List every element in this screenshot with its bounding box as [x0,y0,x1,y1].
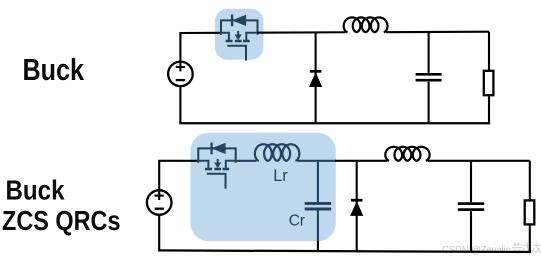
wire: output capacitor branch (top) [428,32,430,123]
inductor L (bottom circuit) [385,147,429,161]
wire: resonant capacitor branch [317,161,319,242]
wire: top circuit bottom rail [179,122,490,124]
load resistor R (bottom circuit) [525,200,535,224]
svg-text:Cr: Cr [289,213,305,230]
wire: Vin to switch [179,32,221,34]
watermark: CJK glyph 1 [512,243,522,253]
watermark: CJK glyph 2 [523,243,532,253]
svg-text:Buck: Buck [23,52,85,87]
wire: Cr branch below highlight box [317,241,319,251]
wire: top circuit left rail [179,33,181,123]
highlight box: ZCS resonant cell [190,133,335,241]
output capacitor C (bottom circuit) [458,204,484,210]
wire: inductor to output node (bottom) [428,160,530,162]
svg-text:Buck: Buck [6,174,65,205]
wire: output capacitor branch (bottom) [470,161,472,252]
svg-text:Lr: Lr [273,167,288,185]
wire: Lr to Cr tap [298,160,337,162]
voltage source Vin (bottom circuit) [147,190,172,215]
svg-text:CSDN @Zevalin: CSDN @Zevalin [442,244,511,256]
MOSFET switch with body diode (top circuit) [221,16,258,60]
MOSFET switch with body diode (bottom circuit) [198,144,235,188]
wire: Cr tap to diode tap and inductor [335,160,387,162]
svg-text:ZCS QRCs: ZCS QRCs [2,205,121,236]
watermark: CJK glyph 3 [532,243,541,253]
freewheeling diode D1 (bottom circuit) [351,200,363,215]
wire: bottom circuit left rail [158,161,160,251]
resonant inductor Lr [255,144,299,161]
freewheeling diode D1 (top circuit) [310,71,322,86]
highlight box: Buck switch cell [215,9,264,60]
wire: freewheel diode branch (bottom) [356,161,358,251]
wire: load branch (bottom) [529,161,531,252]
wire: load branch (top) [488,32,490,124]
wire: inductor to output node (top) [386,31,489,34]
output capacitor C (top circuit) [416,74,442,80]
wire: freewheel diode branch (top) [315,33,317,124]
wire: Vin to switch (bottom) [158,160,198,162]
wire: bottom circuit bottom rail [158,250,531,252]
inductor L (top circuit) [344,17,388,32]
wire: switch to inductor, diode tap [258,31,346,34]
voltage source Vin (top circuit) [168,62,193,87]
wire: switch to resonant inductor [236,160,257,162]
load resistor R (top circuit) [484,71,494,95]
resonant capacitor Cr [305,203,331,209]
